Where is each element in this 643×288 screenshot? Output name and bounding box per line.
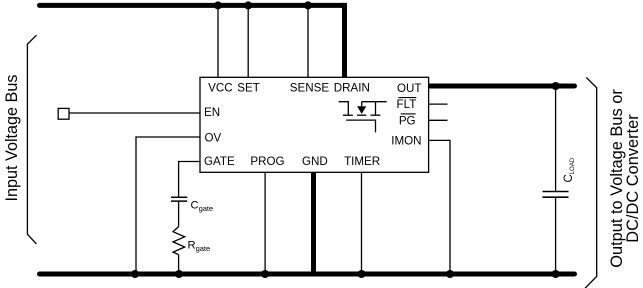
wire: GND pin thick drop to bottom bus — [311, 172, 316, 274]
left bracket — [27, 35, 36, 244]
right bracket — [585, 77, 597, 288]
wire: top input bus (thick) — [40, 3, 345, 8]
svg-text:GND: GND — [302, 155, 328, 168]
wire: PG pin stub — [429, 119, 448, 121]
IC U1 hot-swap controller box — [200, 77, 429, 172]
thin wires — [69, 5, 556, 274]
wire: OV pin down to bottom bus — [136, 137, 200, 274]
node: IMON tap on bottom bus — [446, 270, 454, 278]
svg-text:GATE: GATE — [204, 155, 235, 168]
wire: SET pin to top bus — [247, 5, 249, 77]
wire: IMON pin to bottom bus — [429, 140, 450, 274]
svg-text:SET: SET — [237, 81, 260, 94]
wire: GATE pin to Cgate — [179, 162, 200, 198]
overline for FLT — [398, 97, 416, 99]
svg-text:IMON: IMON — [391, 134, 421, 147]
wire: PROG pin to bottom bus — [264, 172, 266, 274]
wire: bottom ground bus (thick) — [40, 272, 575, 277]
node: CLOAD tap on OUT bus — [552, 82, 560, 90]
svg-text:DRAIN: DRAIN — [334, 81, 370, 94]
svg-text:PROG: PROG — [250, 155, 284, 168]
wire: FLT pin stub — [429, 103, 448, 105]
svg-text:EN: EN — [204, 106, 220, 119]
node: TIMER tap on bottom bus — [358, 270, 366, 278]
svg-text:OV: OV — [205, 131, 222, 144]
wire: VCC pin to top bus — [217, 5, 219, 77]
EN input terminal square — [58, 108, 69, 119]
wire: TIMER pin to bottom bus — [361, 172, 363, 274]
node: SET tap on top bus — [244, 1, 252, 9]
wire: Rgate to bottom bus — [178, 255, 180, 274]
node: CLOAD tap on bottom bus — [552, 270, 560, 278]
wire: Cgate to Rgate — [178, 201, 180, 227]
svg-text:DC/DC Converter: DC/DC Converter — [624, 114, 642, 243]
capacitor Cgate — [171, 197, 187, 201]
wire: OUT bus to CLOAD — [555, 86, 557, 192]
svg-text:SENSE: SENSE — [290, 81, 330, 94]
transistor Q1: internal MOSFET symbol — [339, 102, 387, 133]
node: VCC tap on top bus — [214, 1, 222, 9]
node: OV tap on bottom bus — [131, 270, 139, 278]
svg-text:PG: PG — [399, 114, 416, 127]
resistor Rgate — [173, 227, 185, 255]
wire: EN pin to input terminal — [69, 112, 200, 114]
diode: MOSFET body diode — [357, 106, 366, 114]
node: PROG tap on bottom bus — [261, 270, 269, 278]
wire: thick drop from top bus to DRAIN pin — [342, 3, 347, 77]
overline for PG — [401, 113, 416, 115]
svg-text:VCC: VCC — [208, 81, 232, 94]
wire: CLOAD to bottom bus — [555, 197, 557, 274]
svg-text:FLT: FLT — [397, 98, 417, 111]
svg-text:TIMER: TIMER — [344, 155, 380, 168]
node: Rgate tap on bottom bus — [175, 270, 183, 278]
capacitor CLOAD — [543, 192, 569, 198]
svg-text:OUT: OUT — [397, 82, 421, 95]
pin labels — [204, 81, 422, 168]
wire: SENSE pin to top bus — [307, 5, 309, 77]
bus end caps — [37, 3, 577, 277]
node: SENSE tap on top bus — [304, 1, 312, 9]
wire: OUT bus (thick) — [429, 84, 575, 89]
svg-text:Input Voltage Bus: Input Voltage Bus — [3, 75, 21, 202]
